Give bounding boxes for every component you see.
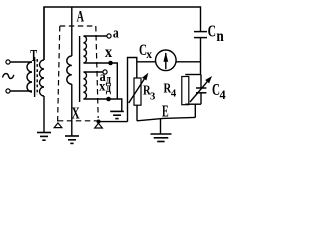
shield triangle left (54, 123, 62, 128)
wire detector to Cn branch (176, 61, 200, 63)
node x dot (108, 61, 113, 66)
wire source bottom (10, 90, 32, 92)
wire Cn lower lead (200, 38, 202, 62)
wire PT high-voltage lead to ground (71, 84, 73, 136)
PT core line (79, 36, 81, 102)
wire R4 C4 top rail (185, 74, 201, 76)
wire R4 C4 branch to bottom rail (194, 104, 196, 117)
svg-text:x: x (105, 44, 113, 61)
standard capacitor Cn plates (194, 31, 207, 33)
wire from Cx tap to detector (137, 61, 156, 63)
wire shield rail to test object (99, 121, 128, 123)
svg-text:4: 4 (220, 88, 227, 102)
wire C4 upper lead (200, 75, 202, 89)
detector needle (165, 53, 167, 69)
svg-text:x: x (99, 78, 105, 93)
dashed box A bottom edge (58, 120, 97, 122)
ground under PT high-voltage winding (65, 136, 79, 143)
detector galvanometer circle (156, 50, 177, 71)
variable capacitor C4 plates (196, 87, 206, 89)
dashed box A right edge (96, 26, 98, 118)
AC source symbol ~ (3, 74, 14, 79)
ground under transformer T (37, 133, 51, 141)
svg-text:3: 3 (150, 91, 156, 103)
svg-text:X: X (72, 104, 80, 123)
C4 variable arrow (190, 82, 207, 102)
source terminal circle top (6, 60, 10, 64)
R3 variable arrow (129, 79, 145, 103)
dashed box A top edge (60, 25, 96, 27)
node xp dot (106, 97, 111, 102)
wire bottom rail node E (137, 117, 195, 120)
PT secondary winding lower section ap-xp (84, 72, 87, 99)
wire T secondary top lead (43, 7, 45, 60)
transformer T secondary winding (40, 60, 45, 96)
svg-text:E: E (162, 102, 169, 121)
wire R4 C4 bottom rail (185, 103, 201, 105)
PT high-voltage winding (67, 56, 72, 84)
resistor R4 box (182, 77, 189, 105)
junction dot at shield triangle right (97, 120, 101, 124)
svg-text:д: д (106, 80, 111, 95)
dashed box A left edge (58, 26, 60, 122)
wire PT high-voltage lead from top rail (71, 7, 73, 56)
transformer T core solid line (34, 57, 36, 97)
wire x tap (84, 63, 118, 99)
ground under x xp taps (110, 111, 124, 118)
test object Cx left side (128, 58, 137, 122)
wire T secondary bottom lead (43, 96, 45, 133)
svg-text:4: 4 (171, 89, 176, 100)
terminal ap circle (103, 70, 107, 74)
transformer T core dashed line (36, 59, 38, 95)
PT secondary winding upper section a-x (84, 36, 87, 63)
svg-text:C: C (208, 22, 216, 41)
wire to terminal a (84, 35, 107, 37)
ground at node E (151, 134, 172, 142)
wire top HV rail (44, 7, 201, 60)
shield triangle right (95, 123, 103, 128)
transformer T primary winding (27, 62, 32, 92)
svg-text:A: A (77, 8, 85, 25)
wire node E ground lead (160, 119, 162, 134)
resistor R3 box (134, 78, 141, 105)
wire source top (10, 61, 32, 63)
wire C4 lower lead (200, 93, 202, 104)
wire R3 bottom lead (136, 105, 138, 121)
wire to terminal ap (84, 71, 103, 73)
source terminal circle bottom (6, 89, 10, 93)
svg-text:n: n (216, 28, 224, 45)
wire Cn branch down to R4 C4 (200, 62, 202, 75)
wire xp tap (84, 99, 122, 111)
svg-text:x: x (146, 47, 152, 61)
svg-text:T: T (30, 46, 37, 65)
svg-text:a: a (113, 25, 119, 41)
terminal a circle (107, 34, 111, 38)
